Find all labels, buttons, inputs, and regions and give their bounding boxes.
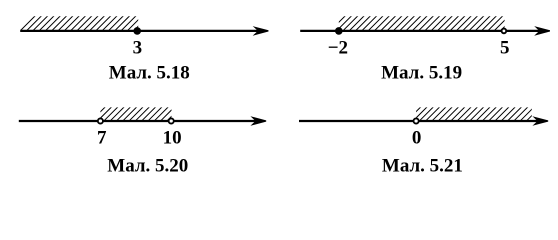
arrowhead xyxy=(250,116,266,126)
arrowhead xyxy=(532,116,548,126)
figure Mal. 5.19 : number line, segment [-2,5) hatched xyxy=(300,15,550,84)
axis wire xyxy=(19,120,261,122)
filled point at -2 xyxy=(335,27,343,35)
axis wire xyxy=(20,30,263,32)
svg-text:Мал. 5.20: Мал. 5.20 xyxy=(107,155,188,176)
arrowhead xyxy=(534,26,550,36)
svg-text:Мал. 5.21: Мал. 5.21 xyxy=(382,155,463,176)
svg-text:Мал. 5.18: Мал. 5.18 xyxy=(109,63,190,84)
arrowhead xyxy=(253,26,269,36)
hatched region (-inf,3] xyxy=(21,15,150,30)
figure Mal. 5.21 : number line, ray x>0 hatched xyxy=(299,106,548,176)
svg-text:5: 5 xyxy=(500,38,510,59)
svg-text:10: 10 xyxy=(163,128,182,149)
figure Mal. 5.20 : number line, interval (7,10) hatched xyxy=(19,106,266,176)
svg-text:0: 0 xyxy=(412,128,422,149)
open point at 5 xyxy=(502,29,507,34)
open point at 10 xyxy=(169,118,174,123)
open point at 7 xyxy=(98,118,103,123)
open point at 0 xyxy=(414,118,419,123)
svg-text:7: 7 xyxy=(97,128,107,149)
filled point at 3 xyxy=(133,27,141,35)
axis wire xyxy=(300,30,545,32)
hatched region (7,10) xyxy=(92,106,182,120)
hatched region (0,+inf) xyxy=(407,106,541,120)
figure Mal. 5.18 : number line, ray x<=3 hatched xyxy=(20,15,268,84)
svg-text:−2: −2 xyxy=(328,38,348,59)
axis wire xyxy=(299,120,543,122)
hatched region [-2,5) xyxy=(331,15,516,30)
svg-text:3: 3 xyxy=(133,38,143,59)
svg-text:Мал. 5.19: Мал. 5.19 xyxy=(381,63,462,84)
